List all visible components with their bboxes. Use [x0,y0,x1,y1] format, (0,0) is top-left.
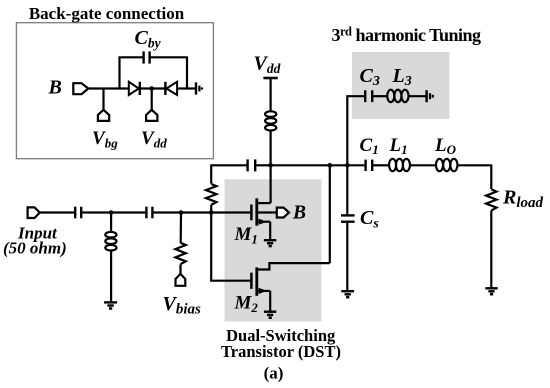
sideways ground (L3 right) [425,90,427,102]
inductor shunt input coil [105,232,116,238]
transistor M1 drain wire [257,202,271,204]
ground shunt inductor [104,301,117,303]
inductor Vdd choke coil [265,111,276,117]
svg-text:LO: LO [434,135,457,157]
svg-text:(50 ohm): (50 ohm) [3,239,67,258]
transistor M1 body wire [257,211,277,213]
port Vbias [176,274,186,286]
transistor M2 gate bar [250,273,253,289]
wire C to node1 to C2 [82,211,145,213]
capacitor C3 [364,90,366,102]
svg-text:Vdd: Vdd [254,53,281,77]
transistor M2 drain wire [257,263,330,269]
svg-text:C1: C1 [360,135,379,157]
wire feedback cap to drain node [256,164,270,166]
wire Vdd drop (inset) [151,89,153,111]
supply bar Vdd [263,77,277,80]
wire Cs to ground [346,223,348,291]
transistor M1 source wire + arrow [257,221,270,223]
wire Vbg drop [102,89,104,111]
capacitor feedback [246,159,248,171]
node Vbias junction [179,210,184,215]
inductor shunt input leads [110,213,112,232]
wire B port to diodes [88,87,129,89]
resistor Rbias [180,213,183,244]
port B (M1 body) [277,208,289,218]
node drain junction [268,163,273,168]
gray box DST region [225,179,322,321]
wire M2 drain to rail [329,165,331,263]
resistor feedback R [211,165,246,183]
svg-text:L1: L1 [389,135,408,157]
wire D1 to D2 [140,87,166,89]
diode D2 [164,82,166,95]
port Vbg [98,110,109,121]
sideways ground (inset right) [195,82,197,94]
svg-text:Cs: Cs [360,207,379,232]
capacitor input 2 [145,207,147,219]
wire C1 to L1 [373,164,388,166]
gray box 3rd harmonic region [352,52,450,119]
capacitor Cby plates [142,51,144,63]
wire Vdd to choke [270,78,272,111]
transistor M1 channel bar [255,198,258,225]
inductor L1 coil [389,159,396,171]
node M2 drain rail junction [328,163,333,168]
wire D2 to termination [177,87,195,89]
svg-text:Transistor (DST): Transistor (DST) [221,342,341,361]
ground Cs [341,290,354,292]
resistor Rload [486,189,496,210]
capacitor Cs plates [341,214,355,216]
node junction Vdd diode [149,86,154,91]
wire L1 to L0 [410,164,436,166]
capacitor input 1 [74,207,76,219]
ground M1 source [264,239,276,241]
ground Rload [485,287,497,289]
svg-text:Rload: Rload [502,187,544,212]
wire input to C [40,211,74,213]
transistor M1 gate bar [250,205,253,221]
node shunt inductor junction [109,210,114,215]
node gate feedback junction [209,210,214,215]
inset box back-gate connection [16,23,213,159]
transistor M2 source wire + arrow [257,290,270,292]
wire drain vertical M1 [270,165,272,203]
wire L3 to termination [409,95,426,97]
svg-text:Vbias: Vbias [163,293,202,318]
capacitor Cby bypass loop wire [120,57,188,88]
wire L0 to Rload corner [458,165,492,189]
wire 3rd harmonic riser [347,96,364,165]
wire choke to rail [270,131,272,165]
wire M2 gate from node [211,213,250,281]
wire gate line [154,211,251,213]
ground M2 source [264,311,276,313]
svg-text:B: B [48,77,62,99]
port Vdd (inset) [146,110,157,121]
inductor L3 coil [387,90,394,102]
svg-text:Back-gate connection: Back-gate connection [29,4,185,23]
wire rail [271,164,365,166]
port B (inset) [73,83,88,94]
wire Rload to ground [490,211,492,288]
capacitor C1 [364,160,366,171]
svg-text:(a): (a) [264,364,284,383]
node harmonic/Cs junction [345,163,350,168]
diode D1 [129,82,139,95]
inductor L0 coil [436,159,443,171]
wire C3 to L3 [373,95,387,97]
wire Cs drop [346,165,348,214]
port Input [28,207,40,218]
svg-text:B: B [292,202,306,223]
svg-text:3rd harmonic Tuning: 3rd harmonic Tuning [332,25,482,46]
transistor M2 channel bar [255,267,258,295]
